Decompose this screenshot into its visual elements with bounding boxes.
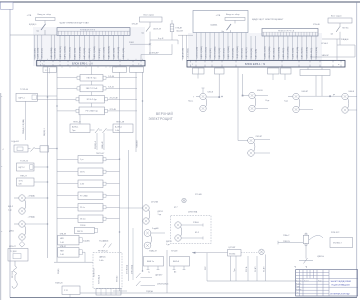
- svg-text:С2В-1(ЗВА): С2В-1(ЗВА): [277, 47, 280, 59]
- svg-text:ЩВ2-4Е(З): ЩВ2-4Е(З): [283, 48, 285, 59]
- bus block БЛОК ЕРБ-1 (left switchboard): [37, 60, 145, 66]
- svg-text:РУЛЕВОЙ УПР N: РУЛЕВОЙ УПР N: [80, 29, 96, 32]
- svg-text:2Л-2Л-4Е: 2Л-2Л-4Е: [110, 97, 119, 99]
- svg-text:НЦ-4Е1.ЕЗВЩрп4В: НЦ-4Е1.ЕЗВЩрп4В: [332, 285, 351, 287]
- wire y=291 short: [113, 290, 127, 292]
- switch between О-Др and small box: [31, 147, 35, 152]
- wire chain2-3 left connector: [57, 183, 78, 185]
- wire ЩРТ-1 to rail (lower): [37, 98, 57, 100]
- vertical rail right of box chain (x=142.5): [142, 72, 144, 271]
- svg-text:ЗЭВ1: ЗЭВ1: [129, 42, 134, 44]
- svg-text:ТСЗЛ-40: ТСЗЛ-40: [20, 89, 29, 91]
- label ЩФ-З 1 дв: [8, 205, 14, 211]
- junction dots on rails: [47, 96, 223, 272]
- motor pair inside dashed box: [175, 222, 182, 241]
- svg-text:Утв: Утв: [296, 292, 299, 294]
- wire down from ЩРТ-1 with label: [22, 101, 26, 140]
- wire right of group5 lower: [255, 152, 270, 154]
- wire y=40 middle: [150, 39, 178, 41]
- wire: feeder from frame to left board: [10, 34, 57, 36]
- svg-text:ЩВ1-4Е(ЗВ): ЩВ1-4Е(ЗВ): [60, 46, 62, 58]
- svg-text:БЛОК ЕРЗ-1 ↑ N: БЛОК ЕРЗ-1 ↑ N: [245, 62, 265, 66]
- svg-text:С2В-4Е(В): С2В-4Е(В): [54, 48, 56, 59]
- svg-text:ЛГУ(ЗЛ): ЛГУ(ЗЛ): [12, 271, 14, 278]
- wire x=355 down right edge: [354, 45, 356, 57]
- wire chain1-3 left connector: [57, 98, 76, 100]
- switch QS2 (right intake): [227, 24, 232, 33]
- svg-text:С2В1-4Е(З): С2В1-4Е(З): [70, 47, 72, 59]
- svg-text:ЗН-ПВ2-Т: ЗН-ПВ2-Т: [333, 242, 342, 244]
- text ВЕРХНИЙ ЭЛЕКТРОЩИТ: [149, 112, 174, 121]
- title block outer frame: [296, 270, 358, 296]
- svg-text:СВ2-1Е(З): СВ2-1Е(З): [241, 48, 243, 59]
- svg-text:ЛЗ(Ж)А: ЛЗ(Ж)А: [146, 290, 153, 293]
- svg-text:ЛЗ-ЦВ(АЗ): ЛЗ-ЦВ(АЗ): [99, 240, 109, 243]
- wire drop x=238 to motor group5: [238, 67, 248, 141]
- svg-text:ЗУВ(А)-Е: ЗУВ(А)-Е: [341, 38, 350, 41]
- svg-text:П дв: П дв: [284, 101, 288, 103]
- small circle device left-middle: [182, 198, 186, 202]
- svg-text:СВ-42(ЗВА): СВ-42(ЗВА): [315, 47, 318, 59]
- svg-text:Тфн: Тфн: [72, 129, 76, 132]
- dashed box ЗЛГ-Н: [171, 216, 211, 244]
- svg-text:ЩВ-2Е(ЗВ): ЩВ-2Е(ЗВ): [246, 47, 248, 58]
- svg-text:Вент кормз: Вент кормз: [144, 15, 154, 17]
- wire y=44 middle-left: [130, 43, 150, 45]
- switch S1 bottom center: [136, 273, 163, 278]
- outgoing box under right bus D: [300, 70, 330, 76]
- svg-text:ЭЛ ПЕРЧН-ПЭЛ ПЩГ: ЭЛ ПЕРЧН-ПЭЛ ПЩГ: [330, 293, 351, 295]
- wire drop x=104 with label: [101, 133, 104, 150]
- svg-text:ЩР-42(ЗВ): ЩР-42(ЗВ): [84, 48, 86, 59]
- svg-text:2СВ-4Е(ВА): 2СВ-4Е(ВА): [78, 47, 81, 59]
- device box ТЕЛО-4Я: [113, 124, 133, 133]
- wire corner x=178: [177, 40, 179, 44]
- wire x=207 drop with rotated label: [205, 253, 207, 281]
- tick wire left of lower pair: [14, 223, 19, 225]
- label ДФП-1 1 дв (upper): [158, 210, 164, 216]
- motor pair ЧЭ4-В (group4): [342, 93, 349, 113]
- svg-text:ЭЛЕКТРОЩИТ: ЭЛЕКТРОЩИТ: [149, 117, 173, 121]
- svg-text:СВ2-42(ЗВ): СВ2-42(ЗВ): [104, 47, 106, 59]
- diamond element below lower pair: [19, 242, 25, 248]
- svg-text:ЛЗВа-Т: ЛЗВа-Т: [283, 235, 290, 237]
- stub wires below ВНВ Зч: [147, 266, 160, 274]
- frame right border: [356, 2, 358, 298]
- fuse F1 (middle): [170, 20, 174, 40]
- svg-text:ЩВ2-4(ЗА): ЩВ2-4(ЗА): [122, 48, 125, 59]
- svg-text:ЗгруНВ: ЗгруНВ: [152, 228, 159, 230]
- consumer box chain2-4: [78, 192, 106, 200]
- rotated labels above title block: [295, 265, 308, 268]
- svg-text:+27В: +27В: [27, 15, 32, 17]
- svg-text:Разраб: Разраб: [296, 283, 301, 285]
- svg-text:СР2-1Е(ЗВ): СР2-1Е(ЗВ): [118, 47, 120, 59]
- wire drops near lamp with labels: [245, 255, 266, 282]
- wire chain2-4 right connector: [106, 195, 120, 197]
- svg-text:ЦЗВУ-Н: ЦЗВУ-Н: [317, 256, 325, 258]
- svg-text:Изм Лист: Изм Лист: [296, 280, 303, 282]
- consumer box chain1-2 ЗВВ ТСЛ 5кВ: [77, 85, 106, 92]
- svg-text:4: 4: [3, 149, 4, 151]
- wire drop x=97 with label: [95, 133, 97, 150]
- consumer box chain2-6: [78, 215, 106, 223]
- svg-text:ПВЭ В Тфн: ПВЭ В Тфн: [86, 77, 96, 80]
- wire drop x=322: [321, 67, 323, 96]
- svg-text:ЩВ-42(ЗВ): ЩВ-42(ЗВ): [219, 48, 221, 59]
- svg-text:ТЗВ(ЗВ)т: ТЗВ(ЗВ)т: [137, 140, 139, 148]
- svg-text:ЩЗ(В)1: ЩЗ(В)1: [211, 24, 219, 26]
- svg-text:2ЩВ-4(ЗВА): 2ЩВ-4(ЗВА): [236, 46, 239, 58]
- svg-text:ЩРТ-1: ЩРТ-1: [19, 97, 26, 99]
- wire contactor bottom down: [305, 246, 307, 259]
- feeder drop wires left of strip (4): [37, 35, 56, 60]
- vertical rail from left bus (x=57): [56, 66, 58, 262]
- wire chain1 link 2-3: [91, 92, 93, 96]
- feeder drop wires with labels (left board, 14): [60, 35, 125, 60]
- device box bottom left-center: [62, 286, 80, 294]
- wire ЩРТ-2 to rail: [34, 166, 48, 168]
- svg-text:РУШ ФУ2: РУШ ФУ2: [331, 231, 339, 234]
- stub wires below left bus: [62, 66, 116, 68]
- box below dashed enclosure: [96, 289, 121, 296]
- svg-text:СВ-4Е(ЗВ): СВ-4Е(ЗВ): [232, 48, 234, 59]
- stub wires below right-bus boxes: [198, 74, 285, 80]
- device box ТЕЛО-42: [70, 124, 90, 133]
- rectifier box ЗУ N: [17, 178, 35, 186]
- wire chain1-2 left connector: [57, 87, 77, 89]
- svg-text:ЛЭ2-ВТ: ЛЭ2-ВТ: [256, 136, 263, 138]
- svg-text:ЩВ-2(ЗА): ЩВ-2(ЗА): [254, 49, 257, 59]
- wire from pair upper right: [151, 232, 165, 234]
- wire chain2-4 left connector: [57, 195, 78, 197]
- box ЛЗУ(Ж) mid-bottom: [228, 250, 242, 257]
- svg-text:ЩВДС ЩОТ ЭЛЕКТРОЩ ВЕНТ: ЩВДС ЩОТ ЭЛЕКТРОЩ ВЕНТ: [252, 19, 284, 21]
- svg-text:ЛУЗ-42: ЛУЗ-42: [117, 276, 119, 282]
- svg-text:ЗУ N: ЗУ N: [19, 180, 24, 182]
- frame bottom border: [10, 297, 357, 299]
- consumer box chain2-5: [78, 204, 106, 212]
- wire drop x=222 to motor group 1: [207, 74, 220, 98]
- svg-text:ЩФ-З: ЩФ-З: [8, 205, 14, 208]
- motor pair ЧУЗ-НА (upper): [143, 205, 150, 224]
- wire y=57 right corner: [310, 56, 355, 58]
- svg-text:ЛЗ бл: ЛЗ бл: [80, 207, 85, 209]
- svg-text:В дв: В дв: [266, 100, 270, 102]
- outgoing box under right bus B: [215, 68, 225, 74]
- wire lower pair to rail: [25, 223, 47, 225]
- svg-text:ЛЗ(В)-ЗУ: ЛЗ(В)-ЗУ: [149, 250, 158, 252]
- feeder drop wire x=34.5 (left board): [34, 35, 36, 60]
- wire x=150 from junction down: [149, 44, 151, 54]
- wire feed to ТЕЛО-42: [79, 115, 81, 124]
- feeder drops between rect and ruler (2): [251, 36, 257, 60]
- svg-text:Тфн: Тфн: [233, 268, 236, 272]
- svg-text:дв 2: дв 2: [174, 207, 178, 209]
- wire rail to ЧУЗ-НА pair: [120, 207, 143, 209]
- wire bus to chain1 feed: [91, 66, 93, 75]
- drawing frame top border: [0, 1, 360, 3]
- svg-text:А(ЗП)-1: А(ЗП)-1: [72, 126, 78, 129]
- svg-text:ЧЭ3-ВТ: ЧЭ3-ВТ: [302, 91, 309, 93]
- wire drop x=316 to group3/4 junction: [300, 67, 316, 96]
- svg-text:ГУВ-4Е: ГУВ-4Е: [176, 27, 183, 29]
- svg-text:1 2: 1 2: [45, 70, 48, 72]
- svg-text:Щ2В-4(ЗВ): Щ2В-4(ЗВ): [292, 48, 294, 59]
- svg-text:С2В-4(ЗВ): С2В-4(ЗВ): [34, 48, 36, 59]
- svg-text:С2В-2(ЗВА): С2В-2(ЗВА): [305, 47, 308, 59]
- svg-text:Ц(ЗЛ)ЗУ: Ц(ЗЛ)ЗУ: [155, 275, 163, 277]
- svg-text:ТСЗЛ-25: ТСЗЛ-25: [20, 161, 29, 163]
- wire from bottom box down: [69, 294, 71, 297]
- svg-text:2ЛВ-4(ЗВ): 2ЛВ-4(ЗВ): [210, 48, 212, 58]
- box Вент теат (right corner): [328, 18, 352, 23]
- svg-text:ЩВ-42Е(З): ЩВ-42Е(З): [274, 48, 276, 59]
- svg-text:1: 1: [42, 63, 43, 65]
- svg-text:ТЕЛО-42: ТЕЛО-42: [73, 122, 81, 124]
- frame left border: [9, 9, 11, 297]
- svg-text:ЗЖ N: ЗЖ N: [80, 172, 85, 174]
- long bottom wire y=293: [80, 292, 296, 294]
- svg-text:ЦВЕ(З): ЦВЕ(З): [99, 257, 106, 259]
- svg-text:ЩРТ-2: ЩРТ-2: [19, 167, 26, 169]
- svg-text:Л-Л-42: Л-Л-42: [108, 86, 114, 88]
- tick wires inside dashed box: [182, 224, 204, 240]
- svg-text:СВ-4Е(ЗВ): СВ-4Е(ЗВ): [251, 48, 253, 59]
- svg-text:ЩЗВ-1(ЗВ): ЩЗВ-1(ЗВ): [37, 47, 39, 58]
- svg-text:ЩВ2-2(ЗВА): ЩВ2-2(ЗВА): [227, 46, 230, 58]
- wire chain2-5 right connector: [106, 206, 120, 208]
- device box ЗВУ N: [74, 227, 97, 233]
- svg-text:А-(ЗП)-1: А-(ЗП)-1: [115, 126, 122, 129]
- wire right of group2: [256, 108, 268, 110]
- title block vertical dividers: [300, 270, 329, 296]
- wire chain2-3 right connector: [106, 183, 120, 185]
- svg-text:ТЕЛО-4Т: ТЕЛО-4Т: [96, 153, 105, 155]
- svg-text:ЛЗУ(Ж): ЛЗУ(Ж): [229, 253, 236, 255]
- vertical rail x=128.5: [128, 150, 130, 281]
- motor pair ЧЭ3-ВТ (group3): [293, 93, 300, 112]
- svg-text:ЩВ-4Е(ЗВА): ЩВ-4Е(ЗВА): [108, 46, 111, 59]
- bus internal tick marks (left bus): [41, 60, 142, 66]
- rotated labels left of right bus: [183, 48, 190, 59]
- svg-text:ЧЭ4-В: ЧЭ4-В: [349, 91, 355, 93]
- svg-text:1 уч: 1 уч: [80, 159, 83, 161]
- svg-text:4 гр N: 4 гр N: [158, 38, 164, 40]
- svg-text:ВНЗ А: ВНЗ А: [173, 260, 180, 263]
- wire chain2-1 left connector: [57, 158, 78, 160]
- svg-text:СВ2-4Е(ЗА): СВ2-4Е(ЗА): [296, 47, 299, 59]
- wire from НВУ lower right and down: [82, 252, 85, 262]
- svg-text:ЭН-ЭРЛ ЩЗ(В)СХЕМ: ЭН-ЭРЛ ЩЗ(В)СХЕМ: [331, 281, 352, 283]
- label inside dashed enclosure: [99, 257, 106, 262]
- title block horizontal dividers: [296, 273, 358, 294]
- stub wires below ВНЗ А: [173, 266, 186, 274]
- svg-text:ЛУЗ-4Е: ЛУЗ-4Е: [171, 250, 178, 252]
- wire chain1-3 right connector with label 2Л-2Л-4Е: [108, 97, 138, 99]
- wire into ЛЗУ(Ж) from left: [192, 252, 228, 254]
- vertical rail x=136 (short): [135, 72, 137, 152]
- svg-text:ТС ДФК: ТС ДФК: [10, 250, 17, 253]
- box Вент кормз (middle): [140, 17, 163, 22]
- wire rail x=133 segment: [132, 228, 134, 280]
- wire chain2-2 right connector: [106, 171, 120, 173]
- cable coil symbol below ТС ДФК: [12, 261, 17, 288]
- svg-text:ПЭВ(А)-1 N(ЗВА): ПЭВ(А)-1 N(ЗВА): [22, 119, 25, 134]
- wires right of group4: [349, 97, 357, 111]
- svg-text:СВ-1(ЗВА): СВ-1(ЗВА): [187, 48, 190, 58]
- svg-text:ЩВ-2(ЗВА): ЩВ-2(ЗВА): [50, 47, 53, 58]
- wire right of group3 lower: [299, 109, 313, 111]
- svg-text:ЩЗ(В)-1: ЩЗ(В)-1: [29, 24, 37, 26]
- motor pair ЗгруНВ: [144, 230, 151, 249]
- svg-text:5ПЭ-4Е: 5ПЭ-4Е: [313, 24, 320, 26]
- svg-text:ЩЗВ1-4(ЗВ): ЩЗВ1-4(ЗВ): [264, 46, 266, 58]
- svg-text:1 дв: 1 дв: [8, 209, 12, 211]
- dashed wire right of ЛЗУ(Ж): [241, 252, 258, 254]
- svg-text:ЗВВ ТСЛ 5кВ: ЗВВ ТСЛ 5кВ: [86, 88, 98, 90]
- svg-text:ЕЗ-З: ЕЗ-З: [195, 232, 199, 234]
- svg-text:ЗВ 1кв: ЗВ 1кв: [80, 219, 86, 221]
- consumer box chain1-3 ВЛ 8сЛ 4др: [76, 96, 108, 104]
- wire chain2-1 right connector: [106, 158, 120, 160]
- svg-text:ЗЦЗ-АN: ЗЦЗ-АN: [83, 239, 90, 242]
- wire drop x=242.5 to motor group 2: [242, 74, 249, 96]
- svg-text:СЕ2Э-1П: СЕ2Э-1П: [153, 28, 162, 30]
- wire x=337 from strip end down to bus: [336, 39, 338, 60]
- svg-text:ЛЗЛ-Е: ЛЗЛ-Е: [80, 225, 86, 227]
- rotated labels on rail x=128.5: [127, 264, 134, 274]
- svg-text:ЛЗ-АП: ЛЗ-АП: [263, 266, 266, 272]
- transformer box ЩРТ-1: [16, 93, 37, 101]
- wire junction to motor group4: [316, 94, 341, 97]
- svg-text:СВ-2Е(ЗВА): СВ-2Е(ЗВА): [287, 46, 290, 58]
- svg-text:ЧУВЗ ПВА: ЧУВЗ ПВА: [188, 210, 198, 213]
- svg-text:ЩЗ-1М: ЩЗ-1М: [177, 31, 184, 33]
- outgoing box under left bus C: [130, 67, 144, 72]
- label ДФП-1 1 дв: [166, 240, 172, 246]
- vertical rail from left bus (x=47.5): [47, 66, 49, 258]
- wire right of group2 upper: [255, 95, 268, 97]
- wire small box to rail x57: [49, 148, 58, 150]
- device box ТС ДФК: [8, 249, 28, 262]
- wire corner to right border: [337, 39, 355, 45]
- tick left of group3: [288, 96, 292, 98]
- vertical rail x=119.5: [119, 72, 121, 291]
- svg-text:Подп: Подп: [318, 280, 322, 282]
- device box ВНЗ А: [170, 257, 190, 267]
- bus internal tick marks (right bus): [191, 60, 342, 67]
- wire tick above group1: [202, 88, 205, 93]
- svg-text:СВ1-42Е(З): СВ1-42Е(З): [205, 47, 207, 59]
- svg-text:ЩВ-4Е(ЗВ): ЩВ-4Е(ЗВ): [183, 48, 185, 59]
- wire y=54.5 middle with label: [141, 44, 172, 60]
- consumer box chain1-4 РФ СЛАВ Тфн: [76, 107, 108, 115]
- svg-text:ТЕЛО-4Я: ТЕЛО-4Я: [116, 122, 125, 124]
- wire chain2-5 left connector: [57, 206, 78, 208]
- wire chain1-4 right connector with label 2ЛЗ-4Е: [108, 109, 138, 111]
- svg-text:1 дв: 1 дв: [166, 244, 170, 246]
- wire chain1-4 left connector: [57, 110, 76, 112]
- device box right of О-Др: [40, 146, 49, 152]
- halo shading left board: [33, 27, 145, 66]
- bus block БЛОК ЕРЗ-1 (right switchboard): [187, 60, 345, 67]
- device box ЗН-ПВ2-Т: [330, 238, 353, 248]
- halo shading right board: [188, 33, 322, 67]
- wire box to rail x57: [35, 148, 41, 150]
- wire О-Др to box: [28, 148, 31, 150]
- svg-text:Вент кормз: Вент кормз: [331, 15, 341, 17]
- svg-text:ДФП-1: ДФП-1: [158, 210, 164, 213]
- wire chain2-6 left connector: [57, 218, 78, 220]
- wire horizontal y=262: [54, 261, 93, 263]
- svg-text:СВ2-Е(ЗВА): СВ2-Е(ЗВА): [213, 46, 216, 58]
- tick wire left of pair: [14, 197, 19, 199]
- junction cross at (150,44): [149, 43, 151, 45]
- feeder drops left of right bus (2): [183, 35, 187, 60]
- svg-text:(З,ЗЕЗ)-ВР: (З,ЗЕЗ)-ВР: [149, 53, 159, 55]
- svg-text:СВ2-4Е(З): СВ2-4Е(З): [89, 48, 91, 59]
- consumer box chain2-1: [78, 156, 106, 164]
- svg-text:ЛЗ-ВУЗ-ЗТ: ЛЗ-ВУЗ-ЗТ: [94, 267, 96, 277]
- svg-text:1 кВт: 1 кВт: [99, 260, 104, 262]
- tick at left end of wire: [277, 241, 279, 245]
- svg-text:РЕЗИСТОР РУ СВ: РЕЗИСТОР РУ СВ: [278, 31, 295, 33]
- device box НВУ upper: [58, 235, 83, 245]
- motor pair ЛЭ2-ВТ (group5): [248, 137, 255, 156]
- svg-text:ЩВ2-4(ЗВА): ЩВ2-4(ЗВА): [200, 46, 203, 58]
- svg-text:ЛЗУ(ЗЦ)-4: ЛЗУ(ЗЦ)-4: [99, 275, 101, 284]
- wire y=35 left of right bus: [178, 34, 193, 36]
- left margin edge line: [0, 93, 2, 300]
- dashed enclosure: [93, 253, 122, 289]
- label Ввод эл. обор (left) with box: [36, 14, 56, 23]
- outgoing box under right bus C: [268, 68, 292, 74]
- feeder drops from right strip (12): [264, 36, 317, 60]
- terminal strip box (left board): [57, 28, 130, 36]
- switch pair between ТЕЛО boxes: [90, 128, 113, 133]
- device box НВУ lower: [58, 248, 83, 258]
- switch S2 bottom center: [136, 281, 168, 286]
- svg-text:БЛОК ЕРБ-1 ↑ N: БЛОК ЕРБ-1 ↑ N: [72, 62, 93, 66]
- svg-text:ПУ2 Вч: ПУ2 Вч: [342, 28, 348, 30]
- svg-text:С2В-4Е(З): С2В-4Е(З): [223, 48, 225, 59]
- svg-text:2РВ-4Е(В): 2РВ-4Е(В): [99, 48, 101, 59]
- svg-text:ЩВ1-2(ЗВА): ЩВ1-2(ЗВА): [93, 46, 96, 58]
- svg-text:дв: дв: [333, 94, 335, 96]
- wire chain1-2 right connector with label Л-Л-42: [106, 86, 137, 88]
- indicator lamp circle right: [259, 249, 264, 254]
- svg-text:С2В1-Е(ЗВ): С2В1-Е(ЗВ): [196, 47, 198, 59]
- svg-text:ЛЗУ-А: ЛЗУ-А: [245, 266, 248, 272]
- motor pair ЧЭ2-В (group2): [249, 92, 256, 111]
- transformer box ЩРТ-2: [17, 163, 35, 171]
- svg-text:Пров: Пров: [296, 286, 300, 288]
- svg-text:ВНВ Зч: ВНВ Зч: [147, 261, 154, 263]
- svg-text:Ввод эл. обор: Ввод эл. обор: [38, 14, 52, 16]
- svg-text:ЧЭ2-В: ЧЭ2-В: [208, 91, 214, 93]
- svg-text:ЗЛ2-4П: ЗЛ2-4П: [132, 24, 139, 26]
- svg-text:ЗЛВ-Н: ЗЛВ-Н: [193, 222, 199, 224]
- wire chain2-2 left connector: [57, 171, 78, 173]
- svg-text:+ЗУ(ВД): +ЗУ(ВД): [28, 216, 36, 218]
- tick + label Т (group1): [193, 97, 199, 99]
- svg-text:ЗУ-АП: ЗУ-АП: [254, 266, 257, 272]
- svg-text:О-Др-В1: О-Др-В1: [11, 141, 20, 143]
- svg-text:ВЛ 8сЛ 4др: ВЛ 8сЛ 4др: [87, 99, 97, 101]
- switch QS1 (left intake): [41, 24, 46, 35]
- svg-text:+27В: +27В: [216, 15, 221, 17]
